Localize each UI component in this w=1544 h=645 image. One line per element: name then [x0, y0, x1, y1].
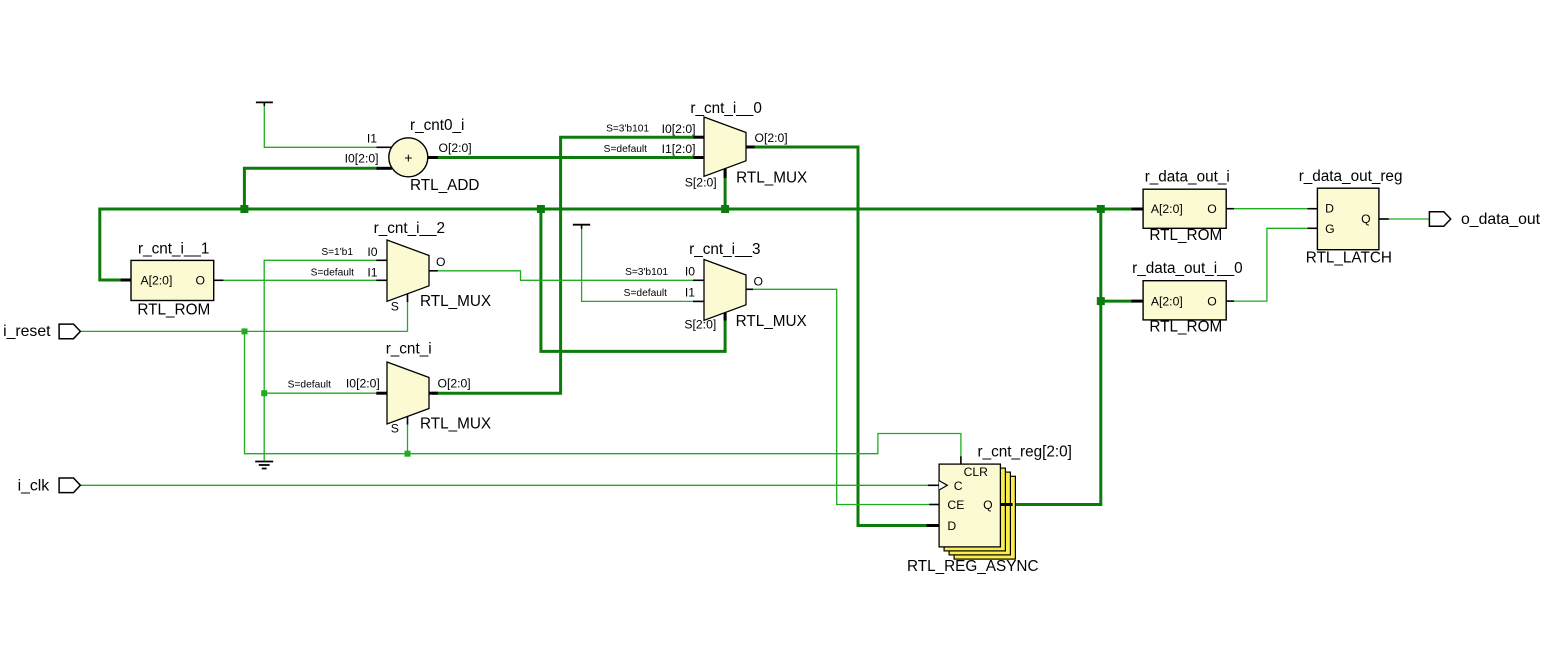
junction i_reset split: [242, 328, 248, 334]
svg-text:Q: Q: [983, 498, 992, 512]
pin stub register C: [928, 484, 939, 486]
pin label r_cnt_i O[2:0]: [438, 376, 471, 390]
svg-text:S=default: S=default: [604, 144, 648, 155]
pin stub r_cnt_i__2 O: [429, 270, 438, 272]
svg-text:Q: Q: [1361, 212, 1370, 226]
mux r_cnt_i__0 RTL_MUX body: [704, 117, 746, 176]
pin stub r_cnt_i__1 O: [214, 279, 224, 281]
svg-text:RTL_LATCH: RTL_LATCH: [1306, 249, 1392, 266]
svg-text:D: D: [947, 519, 956, 533]
svg-text:i_clk: i_clk: [18, 478, 50, 495]
wire bus branch to RTL_ADD I0: [244, 168, 378, 209]
pin stub r_cnt_i__1 A[2:0]: [121, 279, 132, 282]
wire r_cnt_i__1 O to r_cnt_i__2 I1: [215, 279, 378, 281]
pin label r_data_out_i__0 A[2:0]: [1151, 294, 1183, 308]
port i_reset: [3, 323, 80, 340]
pin label r_cnt_i__1 O: [196, 273, 205, 287]
label RTL_MUX of r_cnt_i__3: [736, 313, 807, 330]
svg-text:r_cnt_i: r_cnt_i: [386, 341, 432, 358]
pin label r_cnt_i__3 O: [754, 274, 763, 288]
value label S=default of r_cnt_i__0: [604, 144, 648, 155]
svg-text:r_cnt_i__2: r_cnt_i__2: [374, 220, 445, 237]
value label S=default of r_cnt_i__3: [624, 288, 668, 299]
junction ground net to r_cnt_i I0: [261, 390, 267, 396]
pin stub register D: [927, 524, 940, 527]
junction bus at r_cnt_i__0 S branch: [721, 205, 729, 213]
pin label register C: [954, 479, 963, 493]
value label S=default of r_cnt_i__2: [311, 268, 355, 279]
svg-text:O[2:0]: O[2:0]: [438, 376, 471, 390]
wire r_cnt_i__3 O to register CE: [750, 289, 930, 504]
const tie-off T2 (to r_cnt_i__3 I1): [573, 225, 590, 229]
pin stub r_cnt_i__0 I1[2:0]: [694, 156, 705, 159]
mux r_cnt_i__2 RTL_MUX body: [387, 240, 429, 301]
label r_data_out_i__0: [1132, 260, 1243, 277]
label RTL_ROM of r_data_out_i__0: [1149, 319, 1222, 336]
ROM r_data_out_i__0 RTL_ROM body: [1143, 281, 1226, 320]
svg-text:CE: CE: [947, 498, 964, 512]
wire latch Q to o_data_out port: [1380, 218, 1429, 220]
wire r_cnt_i__2 O to r_cnt_i__3 I0: [432, 271, 695, 281]
pin stub RTL_ADD I1: [377, 146, 392, 148]
register r_cnt_reg[2:0] RTL_REG_ASYNC stacked body: [939, 464, 1015, 559]
svg-text:S[2:0]: S[2:0]: [685, 176, 717, 190]
label r_data_out_reg: [1299, 168, 1403, 185]
wire r_data_out_i__0 O to latch G: [1228, 228, 1310, 301]
svg-text:r_data_out_i: r_data_out_i: [1145, 169, 1230, 186]
pin label r_cnt_i__2 O: [436, 255, 445, 269]
svg-text:RTL_ADD: RTL_ADD: [410, 177, 479, 194]
svg-text:A[2:0]: A[2:0]: [141, 273, 173, 287]
svg-text:S: S: [391, 421, 399, 435]
wire bus to r_cnt_i__3 S[2:0]: [541, 209, 725, 351]
pin stub r_cnt_i__0 I0[2:0]: [694, 136, 705, 139]
svg-text:I0[2:0]: I0[2:0]: [345, 151, 379, 165]
pin stub latch Q: [1379, 218, 1389, 220]
pin label r_cnt_i__0 I1[2:0]: [662, 142, 696, 156]
pin label r_data_out_i O: [1207, 202, 1216, 216]
junction bus at r_data_out_i__0 A branch: [1097, 297, 1105, 305]
pin label r_data_out_i A[2:0]: [1151, 202, 1183, 216]
svg-text:I0: I0: [685, 265, 695, 279]
svg-text:O: O: [754, 274, 763, 288]
mux r_cnt_i__3 RTL_MUX body: [704, 260, 746, 321]
pin label r_cnt_i__2 I0: [367, 245, 377, 259]
pin stub register CE: [929, 504, 939, 506]
svg-text:r_cnt_i__3: r_cnt_i__3: [689, 241, 760, 258]
label r_cnt_i: [386, 341, 432, 358]
svg-text:S=default: S=default: [288, 380, 332, 391]
clock chevron on register C pin: [939, 481, 947, 490]
pin label r_cnt_i I0[2:0]: [346, 376, 380, 390]
svg-text:I0[2:0]: I0[2:0]: [346, 376, 380, 390]
ROM r_data_out_i RTL_ROM body: [1143, 189, 1226, 228]
pin label register CE: [947, 498, 964, 512]
op-amp/adder U r_cnt0_i RTL_ADD body: [389, 138, 428, 177]
svg-text:RTL_MUX: RTL_MUX: [420, 293, 491, 310]
svg-text:r_cnt_i__0: r_cnt_i__0: [690, 100, 761, 117]
pin stub r_cnt_i__2 S: [407, 294, 409, 302]
junction i_reset at r_cnt_i S: [405, 451, 411, 457]
pin label register Q: [983, 498, 992, 512]
svg-text:+: +: [404, 149, 412, 165]
pin label latch G: [1325, 222, 1334, 236]
pin label r_cnt_i__3 I0: [685, 265, 695, 279]
svg-text:I1: I1: [685, 286, 695, 300]
label RTL_REG_ASYNC: [907, 558, 1039, 575]
svg-text:RTL_MUX: RTL_MUX: [736, 313, 807, 330]
const tie-off T1 (to RTL_ADD I1): [256, 102, 273, 106]
pin label r_cnt_i__0 O[2:0]: [755, 131, 788, 145]
pin label r_cnt_i__0 I0[2:0]: [662, 122, 696, 136]
svg-text:r_cnt_reg[2:0]: r_cnt_reg[2:0]: [978, 444, 1072, 461]
svg-text:G: G: [1325, 222, 1334, 236]
pin stub RTL_ADD I0[2:0]: [377, 167, 392, 170]
wire bus branch to r_data_out_i__0 A[2:0]: [1101, 300, 1133, 303]
value label S=3'b101 of r_cnt_i__0: [606, 124, 649, 135]
pin stub r_cnt_i__3 I1: [693, 300, 704, 302]
wire register Q to bus vertical: [1005, 209, 1101, 505]
label r_cnt_i__3: [689, 241, 760, 258]
svg-text:r_cnt0_i: r_cnt0_i: [410, 117, 464, 134]
pin label RTL_ADD O[2:0]: [439, 141, 472, 155]
label r_cnt_i__0: [690, 100, 761, 117]
pin label register D: [947, 519, 956, 533]
svg-text:A[2:0]: A[2:0]: [1151, 202, 1183, 216]
svg-text:A[2:0]: A[2:0]: [1151, 294, 1183, 308]
pin label latch D: [1325, 201, 1334, 215]
pin label r_cnt_i__2 S: [391, 300, 399, 314]
value label S=default of r_cnt_i: [288, 380, 332, 391]
pin stub r_data_out_i A[2:0]: [1132, 208, 1144, 211]
mux r_cnt_i RTL_MUX body: [387, 362, 429, 424]
svg-text:CLR: CLR: [964, 465, 989, 479]
ground: [255, 462, 273, 469]
wire const T2 to r_cnt_i__3 I1: [582, 227, 695, 301]
junction bus at adder branch: [240, 205, 248, 213]
svg-text:r_data_out_i__0: r_data_out_i__0: [1132, 260, 1243, 277]
svg-text:S=1'b1: S=1'b1: [321, 247, 353, 258]
pin label r_data_out_i__0 O: [1207, 294, 1216, 308]
label r_cnt_reg[2:0]: [978, 444, 1072, 461]
wire r_cnt_i__0 O[2:0] to register D: [750, 147, 930, 526]
label RTL_MUX of r_cnt_i: [420, 416, 491, 433]
pin stub r_cnt_i__2 I0: [376, 259, 387, 261]
wire r_cnt_i__0 S[2:0] to bus: [724, 172, 727, 209]
svg-text:RTL_ROM: RTL_ROM: [1149, 319, 1222, 336]
wire ground net vertical with branches to r_cnt_i__2 I0 and r_cnt_i I0: [264, 260, 378, 460]
label RTL_LATCH: [1306, 249, 1392, 266]
pin stub r_cnt_i__0 S[2:0]: [724, 169, 727, 179]
svg-text:S=3'b101: S=3'b101: [606, 124, 649, 135]
pin stub r_cnt_i__2 I1: [376, 279, 387, 281]
pin stub r_data_out_i__0 O: [1226, 300, 1234, 302]
label r_cnt_i__1: [138, 241, 209, 258]
label r_data_out_i: [1145, 169, 1230, 186]
label RTL_MUX of r_cnt_i__0: [736, 169, 807, 186]
pin stub r_data_out_i O: [1226, 208, 1234, 210]
pin stub r_cnt_i O[2:0]: [429, 392, 438, 395]
svg-text:r_data_out_reg: r_data_out_reg: [1299, 168, 1403, 185]
pin label register CLR: [964, 465, 989, 479]
pin label r_cnt_i__3 I1: [685, 286, 695, 300]
value label S=1'b1 of r_cnt_i__2: [321, 247, 353, 258]
svg-text:RTL_REG_ASYNC: RTL_REG_ASYNC: [907, 558, 1039, 575]
svg-text:I1: I1: [367, 265, 377, 279]
pin stub r_cnt_i__3 I0: [693, 279, 704, 281]
junction bus at register Q vertical: [1097, 205, 1105, 213]
svg-text:I1[2:0]: I1[2:0]: [662, 142, 696, 156]
svg-text:RTL_ROM: RTL_ROM: [137, 302, 210, 319]
svg-text:r_cnt_i__1: r_cnt_i__1: [138, 241, 209, 258]
label RTL_ROM of r_cnt_i__1: [137, 302, 210, 319]
ROM r_cnt_i__1 RTL_ROM body: [131, 260, 214, 300]
wire r_cnt_i O[2:0] to r_cnt_i__0 I0[2:0]: [432, 137, 695, 393]
pin stub r_cnt_i__3 S[2:0]: [724, 313, 727, 321]
svg-text:O: O: [1207, 294, 1216, 308]
wire const1 T to RTL_ADD I1: [264, 104, 378, 147]
svg-text:I1: I1: [367, 132, 377, 146]
svg-text:S[2:0]: S[2:0]: [684, 317, 716, 331]
svg-text:C: C: [954, 479, 963, 493]
pin label r_cnt_i__0 S[2:0]: [685, 176, 717, 190]
pin label r_cnt_i__2 I1: [367, 265, 377, 279]
wire i_reset branch down and right to register CLR: [245, 331, 961, 458]
label RTL_ADD: [410, 177, 479, 194]
svg-text:I0: I0: [367, 245, 377, 259]
latch r_data_out_reg RTL_LATCH body: [1317, 188, 1379, 250]
svg-text:o_data_out: o_data_out: [1461, 211, 1541, 228]
port i_clk: [18, 478, 81, 495]
svg-text:i_reset: i_reset: [3, 323, 51, 340]
svg-text:I0[2:0]: I0[2:0]: [662, 122, 696, 136]
pin label r_cnt_i__3 S[2:0]: [684, 317, 716, 331]
pin label RTL_ADD I0[2:0]: [345, 151, 379, 165]
pin stub register CLR: [960, 456, 962, 464]
label RTL_ROM of r_data_out_i: [1149, 227, 1222, 244]
svg-text:S: S: [391, 300, 399, 314]
wire i_reset branch to r_cnt_i S: [407, 422, 409, 454]
wire RTL_ADD O[2:0] to r_cnt_i__0 I1[2:0]: [432, 156, 695, 159]
svg-text:O: O: [1207, 202, 1216, 216]
value label S=3'b101 of r_cnt_i__3: [625, 267, 668, 278]
pin stub r_cnt_i S: [407, 417, 409, 425]
pin label r_cnt_i__1 A[2:0]: [141, 273, 173, 287]
label r_cnt_i__2: [374, 220, 445, 237]
svg-text:RTL_ROM: RTL_ROM: [1149, 227, 1222, 244]
pin stub r_cnt_i__0 O[2:0]: [746, 146, 755, 149]
pin label latch Q: [1361, 212, 1370, 226]
svg-text:S=default: S=default: [624, 288, 668, 299]
pin stub latch D: [1308, 208, 1318, 210]
pin stub r_cnt_i I0[2:0]: [376, 392, 387, 395]
wire i_reset net horizontal: [80, 330, 407, 332]
port o_data_out: [1429, 211, 1540, 228]
pin label RTL_ADD I1: [367, 132, 377, 146]
pin stub register Q: [1000, 503, 1012, 506]
svg-text:S=default: S=default: [311, 268, 355, 279]
pin stub latch G: [1308, 227, 1318, 229]
pin stub RTL_ADD O[2:0]: [428, 156, 438, 159]
svg-text:O: O: [436, 255, 445, 269]
wire r_data_out_i O to latch D: [1228, 208, 1310, 210]
svg-text:S=3'b101: S=3'b101: [625, 267, 668, 278]
svg-text:O: O: [196, 273, 205, 287]
svg-text:D: D: [1325, 201, 1334, 215]
svg-text:RTL_MUX: RTL_MUX: [736, 169, 807, 186]
svg-text:RTL_MUX: RTL_MUX: [420, 416, 491, 433]
wire i_reset to r_cnt_i__2 S: [407, 300, 409, 331]
pin label r_cnt_i S: [391, 421, 399, 435]
svg-text:O[2:0]: O[2:0]: [755, 131, 788, 145]
label r_cnt0_i: [410, 117, 464, 134]
label RTL_MUX of r_cnt_i__2: [420, 293, 491, 310]
pin stub r_data_out_i__0 A[2:0]: [1132, 300, 1144, 303]
wire i_clk to register C: [80, 484, 932, 486]
pin stub r_cnt_i__3 O: [746, 288, 753, 290]
wire r_cnt_reg[2:0] main bus (ROM1 A, long horizontal y=209): [100, 209, 1133, 280]
junction bus at r_cnt_i__3 S branch: [537, 205, 545, 213]
svg-text:O[2:0]: O[2:0]: [439, 141, 472, 155]
